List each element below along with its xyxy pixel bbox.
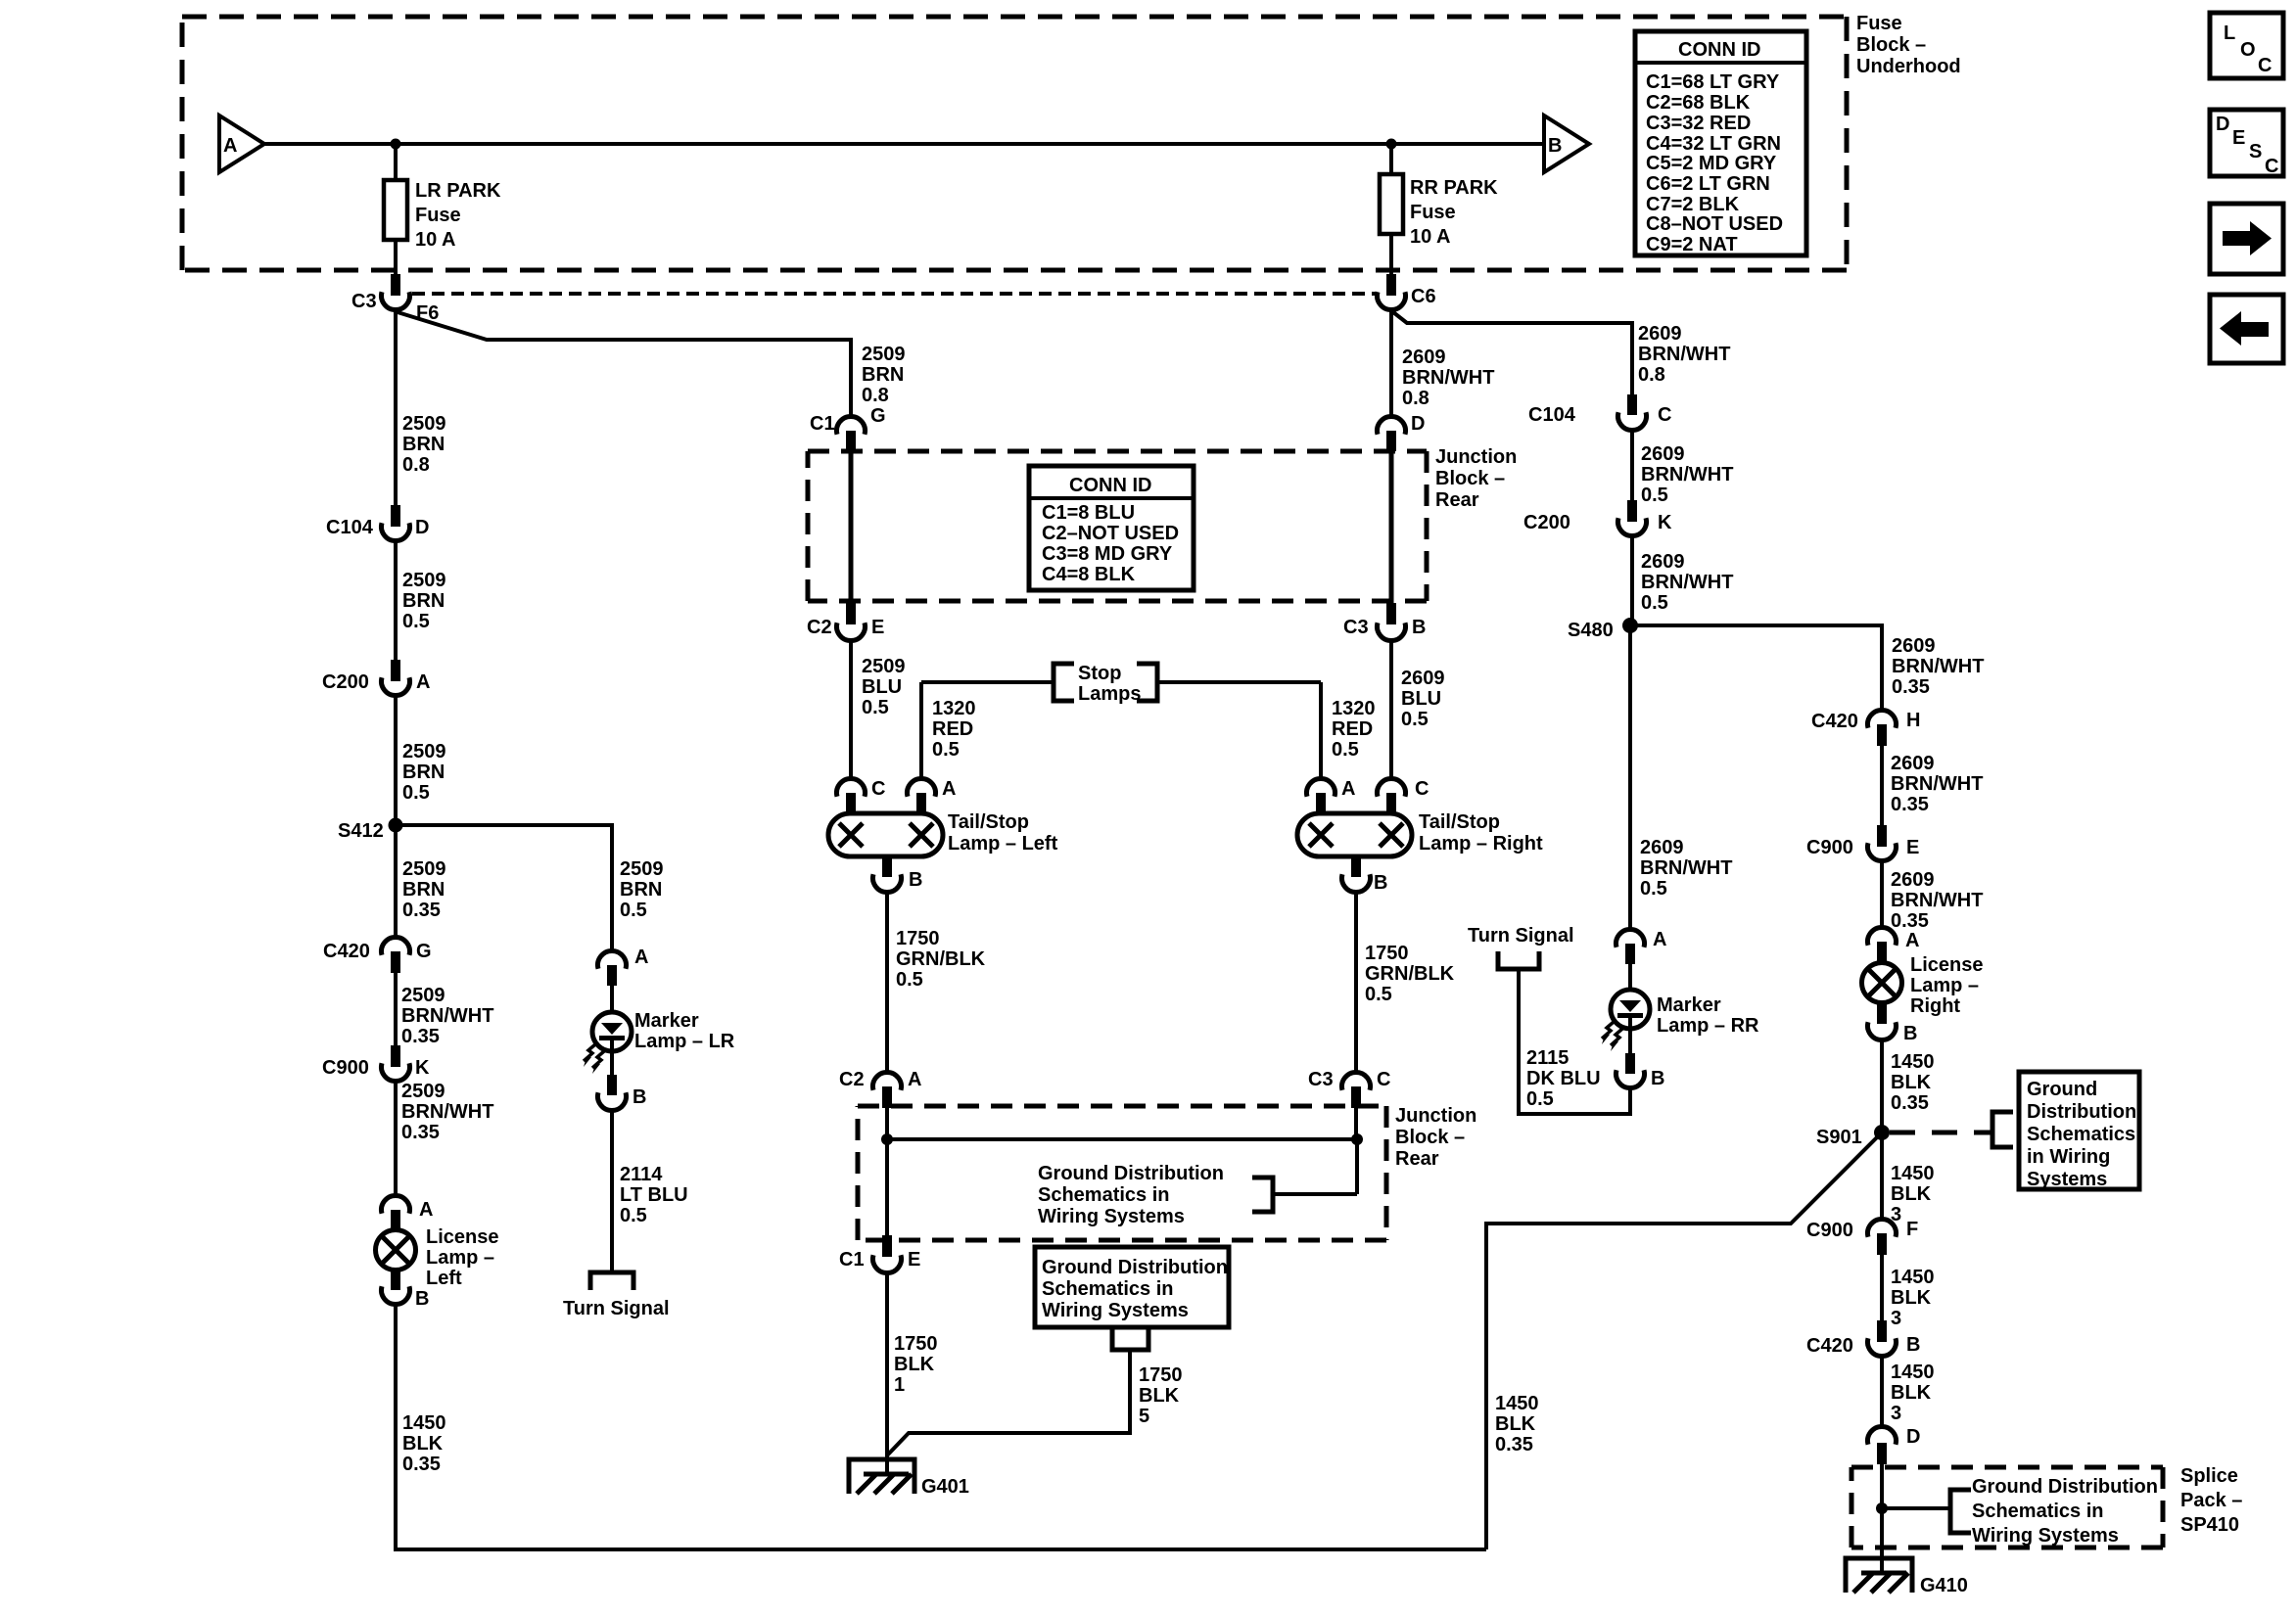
svg-text:G: G <box>870 405 886 427</box>
svg-text:S480: S480 <box>1568 620 1614 641</box>
svg-text:0.5: 0.5 <box>1365 984 1392 1005</box>
svg-text:0.5: 0.5 <box>402 611 430 632</box>
node: RR park fuse tap <box>1386 139 1397 150</box>
svg-text:Right: Right <box>1910 995 1960 1017</box>
svg-text:0.5: 0.5 <box>1641 592 1668 614</box>
svg-text:BRN/WHT: BRN/WHT <box>1402 367 1494 389</box>
node left on ground bus <box>881 1133 893 1145</box>
svg-text:0.8: 0.8 <box>862 385 889 406</box>
svg-text:C420: C420 <box>1811 711 1858 732</box>
tail/stop lamp left symbol <box>828 813 943 856</box>
svg-text:Marker: Marker <box>1657 994 1721 1016</box>
svg-text:BRN: BRN <box>620 879 662 901</box>
svg-text:BRN/WHT: BRN/WHT <box>1641 464 1733 485</box>
svg-text:Fuse: Fuse <box>1410 202 1456 223</box>
svg-text:C7=2 BLK: C7=2 BLK <box>1646 194 1740 215</box>
svg-text:B: B <box>415 1288 429 1310</box>
svg-text:LT BLU: LT BLU <box>620 1184 688 1206</box>
turn signal bracket (right) <box>1498 951 1539 969</box>
stop lamps bracket left <box>1054 664 1074 701</box>
connector A license lamp right <box>1867 927 1896 945</box>
svg-text:C: C <box>871 778 885 800</box>
svg-text:0.35: 0.35 <box>402 1454 441 1475</box>
svg-text:BLK: BLK <box>1495 1413 1536 1435</box>
svg-text:2509: 2509 <box>862 344 906 365</box>
svg-text:3: 3 <box>1891 1403 1901 1424</box>
svg-text:Systems: Systems <box>2027 1169 2107 1190</box>
wire: license lamp right B to S901 (1450 BLK 0.35) <box>1880 1040 1884 1132</box>
svg-text:C3: C3 <box>351 291 377 312</box>
connector B tail lamp left <box>882 856 892 877</box>
svg-text:GRN/BLK: GRN/BLK <box>896 948 986 970</box>
svg-text:D: D <box>415 517 429 538</box>
svg-text:C900: C900 <box>1806 837 1853 858</box>
wire: C6 down to D (2609 BRN/WHT 0.8) <box>1389 309 1393 417</box>
wire: S412 branch to marker lamp LR <box>396 825 612 951</box>
svg-text:RED: RED <box>932 718 973 740</box>
connector C900 pin E (right) <box>1877 825 1887 847</box>
svg-text:CONN ID: CONN ID <box>1069 475 1151 496</box>
svg-text:0.5: 0.5 <box>932 739 960 761</box>
connector C900 pin F <box>1867 1219 1896 1236</box>
svg-text:0.35: 0.35 <box>401 1026 440 1047</box>
svg-text:BRN: BRN <box>402 879 445 901</box>
svg-text:C6=2 LT GRN: C6=2 LT GRN <box>1646 173 1770 195</box>
svg-text:Schematics in: Schematics in <box>1972 1501 2104 1522</box>
CONN ID table (junction block rear) <box>1029 466 1194 590</box>
svg-text:1450: 1450 <box>1891 1362 1935 1383</box>
svg-text:C: C <box>2258 55 2272 76</box>
svg-text:B: B <box>909 869 922 891</box>
ground G410 <box>1846 1558 1912 1593</box>
tail/stop lamp right symbol <box>1297 813 1412 856</box>
wire: C2/E to tail lamp left C (2509 BLU 0.5) <box>849 640 853 779</box>
svg-text:0.35: 0.35 <box>402 900 441 921</box>
connector B license lamp right <box>1877 1003 1887 1024</box>
connector C420 pin G (left) <box>381 937 409 954</box>
splice pack SP410 dashed box <box>1851 1467 2163 1548</box>
svg-text:C3=32 RED: C3=32 RED <box>1646 113 1751 134</box>
wire: bus to RR fuse <box>1389 144 1393 174</box>
bracket under ground distribution box <box>1112 1327 1148 1350</box>
svg-text:Wiring Systems: Wiring Systems <box>1042 1300 1189 1321</box>
svg-text:Marker: Marker <box>634 1010 699 1032</box>
svg-text:BRN: BRN <box>402 590 445 612</box>
wire: power bus A to B <box>264 142 1544 146</box>
svg-text:BRN: BRN <box>402 434 445 455</box>
svg-text:1450: 1450 <box>1891 1051 1935 1073</box>
svg-text:C1=8 BLU: C1=8 BLU <box>1042 502 1135 524</box>
harness dotted line C3 to C6 <box>412 292 1377 296</box>
connector C104 pin D (left) <box>391 505 400 527</box>
svg-text:LR PARK: LR PARK <box>415 180 501 202</box>
svg-text:Lamp –: Lamp – <box>426 1247 494 1269</box>
CONN ID table (fuse block) <box>1635 31 1806 255</box>
wire: ground bus to S901 (1450 BLK 0.35) <box>1486 1132 1882 1549</box>
svg-text:Lamp – RR: Lamp – RR <box>1657 1015 1759 1037</box>
svg-text:3: 3 <box>1891 1308 1901 1329</box>
svg-text:BRN/WHT: BRN/WHT <box>1892 656 1984 677</box>
svg-text:0.5: 0.5 <box>1640 878 1667 900</box>
svg-text:0.5: 0.5 <box>620 1205 647 1226</box>
svg-text:Block –: Block – <box>1856 34 1926 56</box>
svg-text:0.5: 0.5 <box>1401 709 1429 730</box>
svg-text:BRN/WHT: BRN/WHT <box>401 1005 493 1027</box>
svg-text:in Wiring: in Wiring <box>2027 1146 2110 1168</box>
svg-text:Ground Distribution: Ground Distribution <box>1042 1257 1228 1278</box>
svg-text:Lamp – Right: Lamp – Right <box>1419 833 1543 855</box>
svg-text:B: B <box>1374 872 1387 894</box>
svg-text:C104: C104 <box>326 517 374 538</box>
wire: C104/C to C200/K (2609 BRN/WHT 0.5) <box>1630 431 1634 500</box>
svg-text:B: B <box>1412 617 1426 638</box>
svg-text:BRN/WHT: BRN/WHT <box>1891 773 1983 795</box>
svg-text:Schematics: Schematics <box>2027 1124 2135 1145</box>
wire: C900 to license lamp left <box>394 1082 398 1196</box>
marker lamp RR LED symbol <box>1628 964 1632 1000</box>
svg-text:1750: 1750 <box>1139 1364 1183 1386</box>
svg-text:B: B <box>633 1086 646 1108</box>
svg-text:K: K <box>415 1057 430 1079</box>
connector C104 pin C (right) <box>1627 394 1637 415</box>
svg-text:A: A <box>1905 930 1919 951</box>
wire: branch C6 to C104/C (2609 BRN/WHT 0.8) <box>1393 312 1632 394</box>
svg-text:A: A <box>634 947 648 968</box>
svg-text:BRN/WHT: BRN/WHT <box>1640 857 1732 879</box>
svg-text:0.5: 0.5 <box>1526 1088 1554 1110</box>
svg-text:10 A: 10 A <box>1410 226 1451 248</box>
svg-text:BLK: BLK <box>1891 1382 1932 1404</box>
wire: S480 down to marker lamp RR (2609 BRN/WHT 0.5) <box>1628 625 1632 930</box>
wire: C420/H to C900/E (2609 BRN/WHT 0.35) <box>1880 746 1884 825</box>
svg-text:D: D <box>1411 413 1425 435</box>
svg-text:B: B <box>1903 1023 1917 1044</box>
wire: license lamp left to ground bus (1450 BLK 0.35) <box>396 1304 1486 1549</box>
svg-text:C200: C200 <box>1523 512 1570 533</box>
wire: marker RR to turn signal (2115 DK BLU 0.5) <box>1519 971 1630 1114</box>
svg-text:C6: C6 <box>1411 286 1436 307</box>
connector A marker lamp LR <box>598 950 627 968</box>
wire: C2/A down inside junction block <box>885 1108 889 1240</box>
wire: marker LR to turn signal (2114 LT BLU 0.5) <box>610 1110 614 1270</box>
connector C3 pin B (junction block, right) <box>1386 603 1396 624</box>
wire: S480 branch to C420/H <box>1630 625 1882 711</box>
svg-text:C1=68 LT GRY: C1=68 LT GRY <box>1646 71 1780 93</box>
junction block rear dashed box (lower) <box>858 1106 1386 1240</box>
svg-text:C200: C200 <box>322 671 369 693</box>
connector A tail lamp left <box>908 778 936 796</box>
svg-text:0.8: 0.8 <box>1402 388 1429 409</box>
svg-text:0.5: 0.5 <box>1641 485 1668 506</box>
svg-text:Tail/Stop: Tail/Stop <box>948 811 1029 833</box>
wire: S412 down to C420 <box>394 825 398 938</box>
svg-text:BRN/WHT: BRN/WHT <box>1641 572 1733 593</box>
svg-text:Block –: Block – <box>1435 468 1505 489</box>
connector B marker lamp RR <box>1625 1053 1635 1074</box>
svg-text:RED: RED <box>1332 718 1373 740</box>
wire: C420/B to D (1450 BLK 3) <box>1880 1356 1884 1427</box>
svg-text:BRN: BRN <box>862 364 904 386</box>
svg-text:5: 5 <box>1139 1406 1149 1427</box>
connector C420 pin B <box>1877 1320 1887 1342</box>
wire: C200/K to S480 (2609 BRN/WHT 0.5) <box>1630 536 1634 625</box>
svg-text:Splice: Splice <box>2180 1465 2238 1487</box>
svg-text:C2: C2 <box>807 617 832 638</box>
svg-text:BRN/WHT: BRN/WHT <box>401 1101 493 1123</box>
svg-text:G: G <box>416 941 432 962</box>
svg-text:BLK: BLK <box>1891 1072 1932 1093</box>
svg-text:G401: G401 <box>921 1476 969 1498</box>
svg-text:1450: 1450 <box>1495 1393 1539 1414</box>
fuse block underhood dashed box <box>182 17 1847 270</box>
svg-text:A: A <box>908 1069 921 1090</box>
connector C420 pin H <box>1867 710 1896 727</box>
svg-text:0.8: 0.8 <box>402 454 430 476</box>
svg-text:0.35: 0.35 <box>1891 794 1929 815</box>
svg-text:S: S <box>2249 141 2262 162</box>
svg-text:H: H <box>1906 710 1920 731</box>
connector C3 pin C (junction block lower right) <box>1341 1072 1370 1089</box>
svg-text:F: F <box>1906 1219 1918 1240</box>
sidebar icon arrow right <box>2210 204 2283 274</box>
sidebar icon DESC <box>2210 110 2283 176</box>
svg-text:C2=68 BLK: C2=68 BLK <box>1646 92 1751 114</box>
bracket for ground distribution box (right) <box>1992 1112 2013 1147</box>
wire: C1 to C2 inside junction block <box>849 451 854 603</box>
svg-text:2609: 2609 <box>1891 869 1935 891</box>
svg-text:A: A <box>1341 778 1355 800</box>
svg-text:B: B <box>1651 1068 1664 1089</box>
wire: S901 to C900/F (1450 BLK 3) <box>1880 1132 1884 1220</box>
connector C6 pin <box>1386 274 1396 296</box>
svg-text:Wiring Systems: Wiring Systems <box>1972 1525 2119 1547</box>
connector C1 pin E (lower) <box>882 1235 892 1257</box>
svg-text:DK BLU: DK BLU <box>1526 1068 1601 1089</box>
connector D (splice pack) <box>1867 1426 1896 1444</box>
svg-text:0.8: 0.8 <box>1638 364 1665 386</box>
svg-text:Turn Signal: Turn Signal <box>1468 925 1574 947</box>
node right on ground bus <box>1351 1133 1363 1145</box>
wire: LR fuse to C3 pin <box>394 240 398 276</box>
svg-text:Fuse: Fuse <box>1856 13 1902 34</box>
svg-text:2509: 2509 <box>402 858 446 880</box>
svg-text:Lamp –: Lamp – <box>1910 975 1979 996</box>
svg-text:1450: 1450 <box>1891 1267 1935 1288</box>
svg-text:Ground Distribution: Ground Distribution <box>1972 1476 2158 1498</box>
svg-text:Turn Signal: Turn Signal <box>563 1298 670 1319</box>
svg-text:0.5: 0.5 <box>896 969 923 991</box>
svg-text:A: A <box>942 778 956 800</box>
off-page connector triangle A <box>219 115 264 172</box>
splice S480 <box>1622 618 1638 633</box>
wire: RR fuse to C6 pin <box>1389 234 1393 276</box>
svg-text:0.35: 0.35 <box>1891 1092 1929 1114</box>
svg-text:Tail/Stop: Tail/Stop <box>1419 811 1500 833</box>
svg-text:C2–NOT USED: C2–NOT USED <box>1042 523 1179 544</box>
svg-text:Schematics in: Schematics in <box>1038 1184 1170 1206</box>
svg-text:S412: S412 <box>338 820 384 842</box>
svg-text:Lamp – LR: Lamp – LR <box>634 1031 735 1052</box>
svg-text:C5=2 MD GRY: C5=2 MD GRY <box>1646 153 1777 174</box>
wire: C3/B to tail lamp right C (2609 BLU 0.5) <box>1389 640 1393 779</box>
svg-text:C4=8 BLK: C4=8 BLK <box>1042 564 1136 585</box>
wire: tail lamp right B to C3/C (1750 GRN/BLK 0.5) <box>1354 892 1358 1073</box>
svg-text:0.5: 0.5 <box>402 782 430 804</box>
svg-text:C420: C420 <box>323 941 370 962</box>
svg-text:BRN: BRN <box>402 762 445 783</box>
svg-text:2609: 2609 <box>1892 635 1936 657</box>
connector C tail lamp right <box>1378 778 1406 796</box>
svg-text:2609: 2609 <box>1640 837 1684 858</box>
svg-text:0.5: 0.5 <box>862 697 889 718</box>
svg-text:BLK: BLK <box>402 1433 444 1455</box>
marker lamp RR emission arrows <box>1602 1022 1614 1039</box>
svg-text:2509: 2509 <box>401 985 445 1006</box>
svg-text:C: C <box>1377 1069 1390 1090</box>
svg-text:A: A <box>419 1199 433 1221</box>
svg-text:C: C <box>2265 156 2278 177</box>
svg-text:2509: 2509 <box>402 570 446 591</box>
wire: C1/E to G401 (1750 BLK 1) <box>885 1272 889 1474</box>
svg-text:2609: 2609 <box>1641 443 1685 465</box>
svg-text:0.35: 0.35 <box>1495 1434 1533 1455</box>
svg-text:2609: 2609 <box>1641 551 1685 573</box>
svg-text:G410: G410 <box>1920 1575 1968 1596</box>
svg-text:C104: C104 <box>1528 404 1576 426</box>
license lamp right symbol <box>1862 963 1902 1003</box>
wire: C420 to C900 (2509 BRN/WHT 0.35) <box>394 973 398 1045</box>
svg-text:2115: 2115 <box>1526 1047 1569 1069</box>
turn signal bracket (left) <box>590 1272 633 1290</box>
wire: stop lamps right segment <box>1157 680 1321 684</box>
bracket for ground distribution reference <box>1252 1178 1273 1212</box>
wire: ground bus inside junction block <box>887 1137 1357 1141</box>
wire: C104 to C200 (2509 BRN 0.5) <box>394 540 398 660</box>
wire: C200 to S412 (2509 BRN 0.5) <box>394 695 398 825</box>
svg-text:Underhood: Underhood <box>1856 56 1961 77</box>
svg-text:Junction: Junction <box>1395 1105 1476 1127</box>
connector C3 pin F6 <box>391 274 400 296</box>
svg-text:L: L <box>2224 23 2235 44</box>
connector C200 pin K (right) <box>1627 500 1637 522</box>
svg-text:1450: 1450 <box>402 1412 446 1434</box>
wire: stop lamp feed to tail lamp left A (1320 RED 0.5) <box>919 682 923 779</box>
svg-text:1750: 1750 <box>896 928 940 949</box>
svg-text:BLK: BLK <box>1139 1385 1180 1407</box>
svg-text:0.35: 0.35 <box>1892 676 1930 698</box>
wire: stop lamps left segment <box>921 680 1052 684</box>
svg-text:A: A <box>223 135 237 157</box>
sidebar icon arrow left <box>2210 295 2283 363</box>
svg-text:Wiring Systems: Wiring Systems <box>1038 1206 1185 1227</box>
svg-text:2609: 2609 <box>1638 323 1682 345</box>
svg-text:E: E <box>2232 127 2245 149</box>
svg-text:B: B <box>1906 1334 1920 1356</box>
svg-text:C420: C420 <box>1806 1335 1853 1357</box>
svg-text:1320: 1320 <box>932 698 976 719</box>
wire: node to bracket <box>1882 1506 1950 1510</box>
svg-text:1: 1 <box>894 1374 905 1396</box>
svg-text:GRN/BLK: GRN/BLK <box>1365 963 1455 985</box>
svg-text:E: E <box>908 1249 920 1270</box>
connector A license lamp left <box>381 1195 409 1213</box>
connector B tail lamp right <box>1351 856 1361 877</box>
sidebar icon LOC <box>2210 13 2283 78</box>
svg-text:0.5: 0.5 <box>620 900 647 921</box>
splice S901 <box>1874 1125 1890 1140</box>
svg-text:SP410: SP410 <box>2180 1514 2239 1536</box>
svg-text:C900: C900 <box>1806 1220 1853 1241</box>
svg-text:Distribution: Distribution <box>2027 1101 2136 1123</box>
svg-text:2509: 2509 <box>620 858 664 880</box>
svg-text:1450: 1450 <box>1891 1163 1935 1184</box>
svg-text:B: B <box>1548 135 1562 157</box>
svg-text:Left: Left <box>426 1268 462 1289</box>
svg-text:BLU: BLU <box>1401 688 1441 710</box>
svg-text:C: C <box>1415 778 1429 800</box>
svg-text:RR PARK: RR PARK <box>1410 177 1498 199</box>
wire: right node down to bracket link <box>1355 1139 1359 1194</box>
svg-text:10 A: 10 A <box>415 229 456 251</box>
svg-text:BLK: BLK <box>1891 1183 1932 1205</box>
fuse RR PARK 10A <box>1380 174 1403 234</box>
svg-text:BLK: BLK <box>894 1354 935 1375</box>
bracket for ground distribution reference (splice pack) <box>1950 1490 1971 1533</box>
svg-text:C1: C1 <box>839 1249 865 1270</box>
svg-text:2114: 2114 <box>620 1164 663 1185</box>
connector C2 pin E <box>846 603 856 624</box>
svg-text:1750: 1750 <box>894 1333 938 1355</box>
wire: tail lamp left B to C2/A (1750 GRN/BLK 0.5) <box>885 892 889 1073</box>
svg-text:C2: C2 <box>839 1069 865 1090</box>
connector A marker lamp RR <box>1617 929 1645 947</box>
wire: 1750 BLK 5 to G401 <box>887 1350 1130 1455</box>
dashed wire: S901 to ground distribution bracket <box>1890 1131 1992 1135</box>
svg-text:D: D <box>1906 1426 1920 1448</box>
node: LR park fuse tap <box>391 139 401 150</box>
connector D (junction block upper right) <box>1377 416 1405 434</box>
wire: C900/F to C420/B (1450 BLK 3) <box>1880 1255 1884 1320</box>
svg-text:License: License <box>426 1226 498 1248</box>
svg-text:License: License <box>1910 954 1983 976</box>
svg-text:E: E <box>871 617 884 638</box>
svg-text:2509: 2509 <box>862 656 906 677</box>
svg-text:2609: 2609 <box>1891 753 1935 774</box>
svg-text:Block –: Block – <box>1395 1127 1465 1148</box>
connector C200 pin A (left) <box>391 660 400 681</box>
stop lamps bracket right <box>1137 664 1157 701</box>
svg-text:1750: 1750 <box>1365 943 1409 964</box>
svg-text:2609: 2609 <box>1402 346 1446 368</box>
svg-text:2609: 2609 <box>1401 668 1445 689</box>
ground distribution schematics box (center) <box>1035 1247 1229 1327</box>
svg-text:0.35: 0.35 <box>401 1122 440 1143</box>
svg-text:K: K <box>1658 512 1672 533</box>
svg-text:Rear: Rear <box>1395 1148 1439 1170</box>
svg-text:Lamps: Lamps <box>1078 683 1141 705</box>
svg-text:BRN/WHT: BRN/WHT <box>1891 890 1983 911</box>
junction block rear dashed box (upper) <box>808 451 1427 601</box>
svg-text:BLK: BLK <box>1891 1287 1932 1309</box>
connector C tail lamp left <box>837 778 866 796</box>
svg-text:BRN/WHT: BRN/WHT <box>1638 344 1730 365</box>
svg-text:C4=32 LT GRN: C4=32 LT GRN <box>1646 133 1781 155</box>
svg-text:C8–NOT USED: C8–NOT USED <box>1646 213 1783 235</box>
wire: bracket to right node <box>1273 1192 1357 1196</box>
svg-text:A: A <box>416 671 430 693</box>
svg-text:2509: 2509 <box>401 1081 445 1102</box>
svg-text:1320: 1320 <box>1332 698 1376 719</box>
